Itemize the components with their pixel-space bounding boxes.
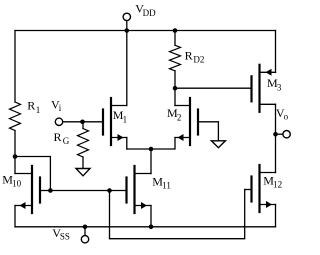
node dot (mirror branch) <box>107 188 112 193</box>
wire RD2 node to M3 gate <box>175 87 252 89</box>
label Vo <box>276 106 289 122</box>
wire VSS rail <box>15 226 276 228</box>
transistor M1 <box>103 31 127 150</box>
label VSS <box>52 226 70 242</box>
wire common node down to M11 <box>150 149 152 174</box>
node dot (R1 / M10 drain-gate) <box>13 154 18 159</box>
svg-text:R: R <box>185 49 193 63</box>
node dot (RD2 bottom / M2 drain / M3 gate) <box>173 86 178 91</box>
svg-text:DD: DD <box>143 8 156 18</box>
transistor M12 <box>245 165 276 227</box>
label M2 <box>167 106 181 122</box>
node dot (VDD / M1 drain) <box>125 28 130 33</box>
node dot (Vo) <box>273 132 278 137</box>
svg-text:SS: SS <box>60 232 70 242</box>
terminal VSS <box>81 227 88 243</box>
svg-text:10: 10 <box>12 179 22 189</box>
terminal Vi <box>55 118 62 125</box>
label M10 <box>2 173 21 189</box>
transistor M10 <box>15 157 50 227</box>
node dot (RG tap) <box>80 120 85 125</box>
terminal Vo <box>276 131 291 138</box>
svg-text:11: 11 <box>162 180 171 190</box>
resistor R1 <box>10 102 21 130</box>
label R1 <box>27 99 40 116</box>
svg-text:R: R <box>27 99 35 113</box>
svg-text:D2: D2 <box>193 54 204 64</box>
svg-text:R: R <box>54 130 62 144</box>
transistor M2 <box>151 88 218 149</box>
wire Vi to M1 gate <box>63 121 103 123</box>
ground (M2 gate) <box>211 141 225 148</box>
wire left rail down to R1 <box>14 31 16 103</box>
label Vi <box>51 97 62 113</box>
wire Vo node down to M12 <box>275 134 277 172</box>
wire M1 source to common node <box>127 148 151 150</box>
svg-text:1: 1 <box>123 115 128 125</box>
transistor M3 <box>252 31 276 135</box>
svg-text:G: G <box>63 136 70 146</box>
node dot (common sources / M11 drain) <box>149 147 154 152</box>
svg-text:2: 2 <box>177 112 182 122</box>
resistor RG <box>78 122 89 169</box>
svg-text:1: 1 <box>36 105 41 115</box>
wire node to M10/M11 gate line <box>15 157 50 191</box>
label M11 <box>152 175 171 191</box>
label M3 <box>267 76 282 92</box>
node dot (VSS terminal) <box>83 225 88 230</box>
node dot (M10 gate node) <box>48 188 53 193</box>
wire R1 bottom to node <box>14 131 16 157</box>
terminal VDD <box>123 13 130 30</box>
label RG <box>54 130 70 146</box>
resistor RD2 <box>170 31 181 89</box>
svg-text:3: 3 <box>277 82 282 92</box>
label M1 <box>113 108 127 124</box>
label VDD <box>135 2 156 18</box>
label RD2 <box>185 49 205 65</box>
ground (RG) <box>76 169 90 176</box>
svg-text:o: o <box>284 112 289 122</box>
node dot (M11 source) <box>149 225 154 230</box>
wire top VDD rail <box>15 30 276 32</box>
svg-text:12: 12 <box>273 180 282 190</box>
wire mirror branch down and right to M12 gate <box>110 190 245 239</box>
transistor M11 <box>50 166 151 227</box>
label M12 <box>263 174 282 190</box>
node dot (RD2 top) <box>173 28 178 33</box>
